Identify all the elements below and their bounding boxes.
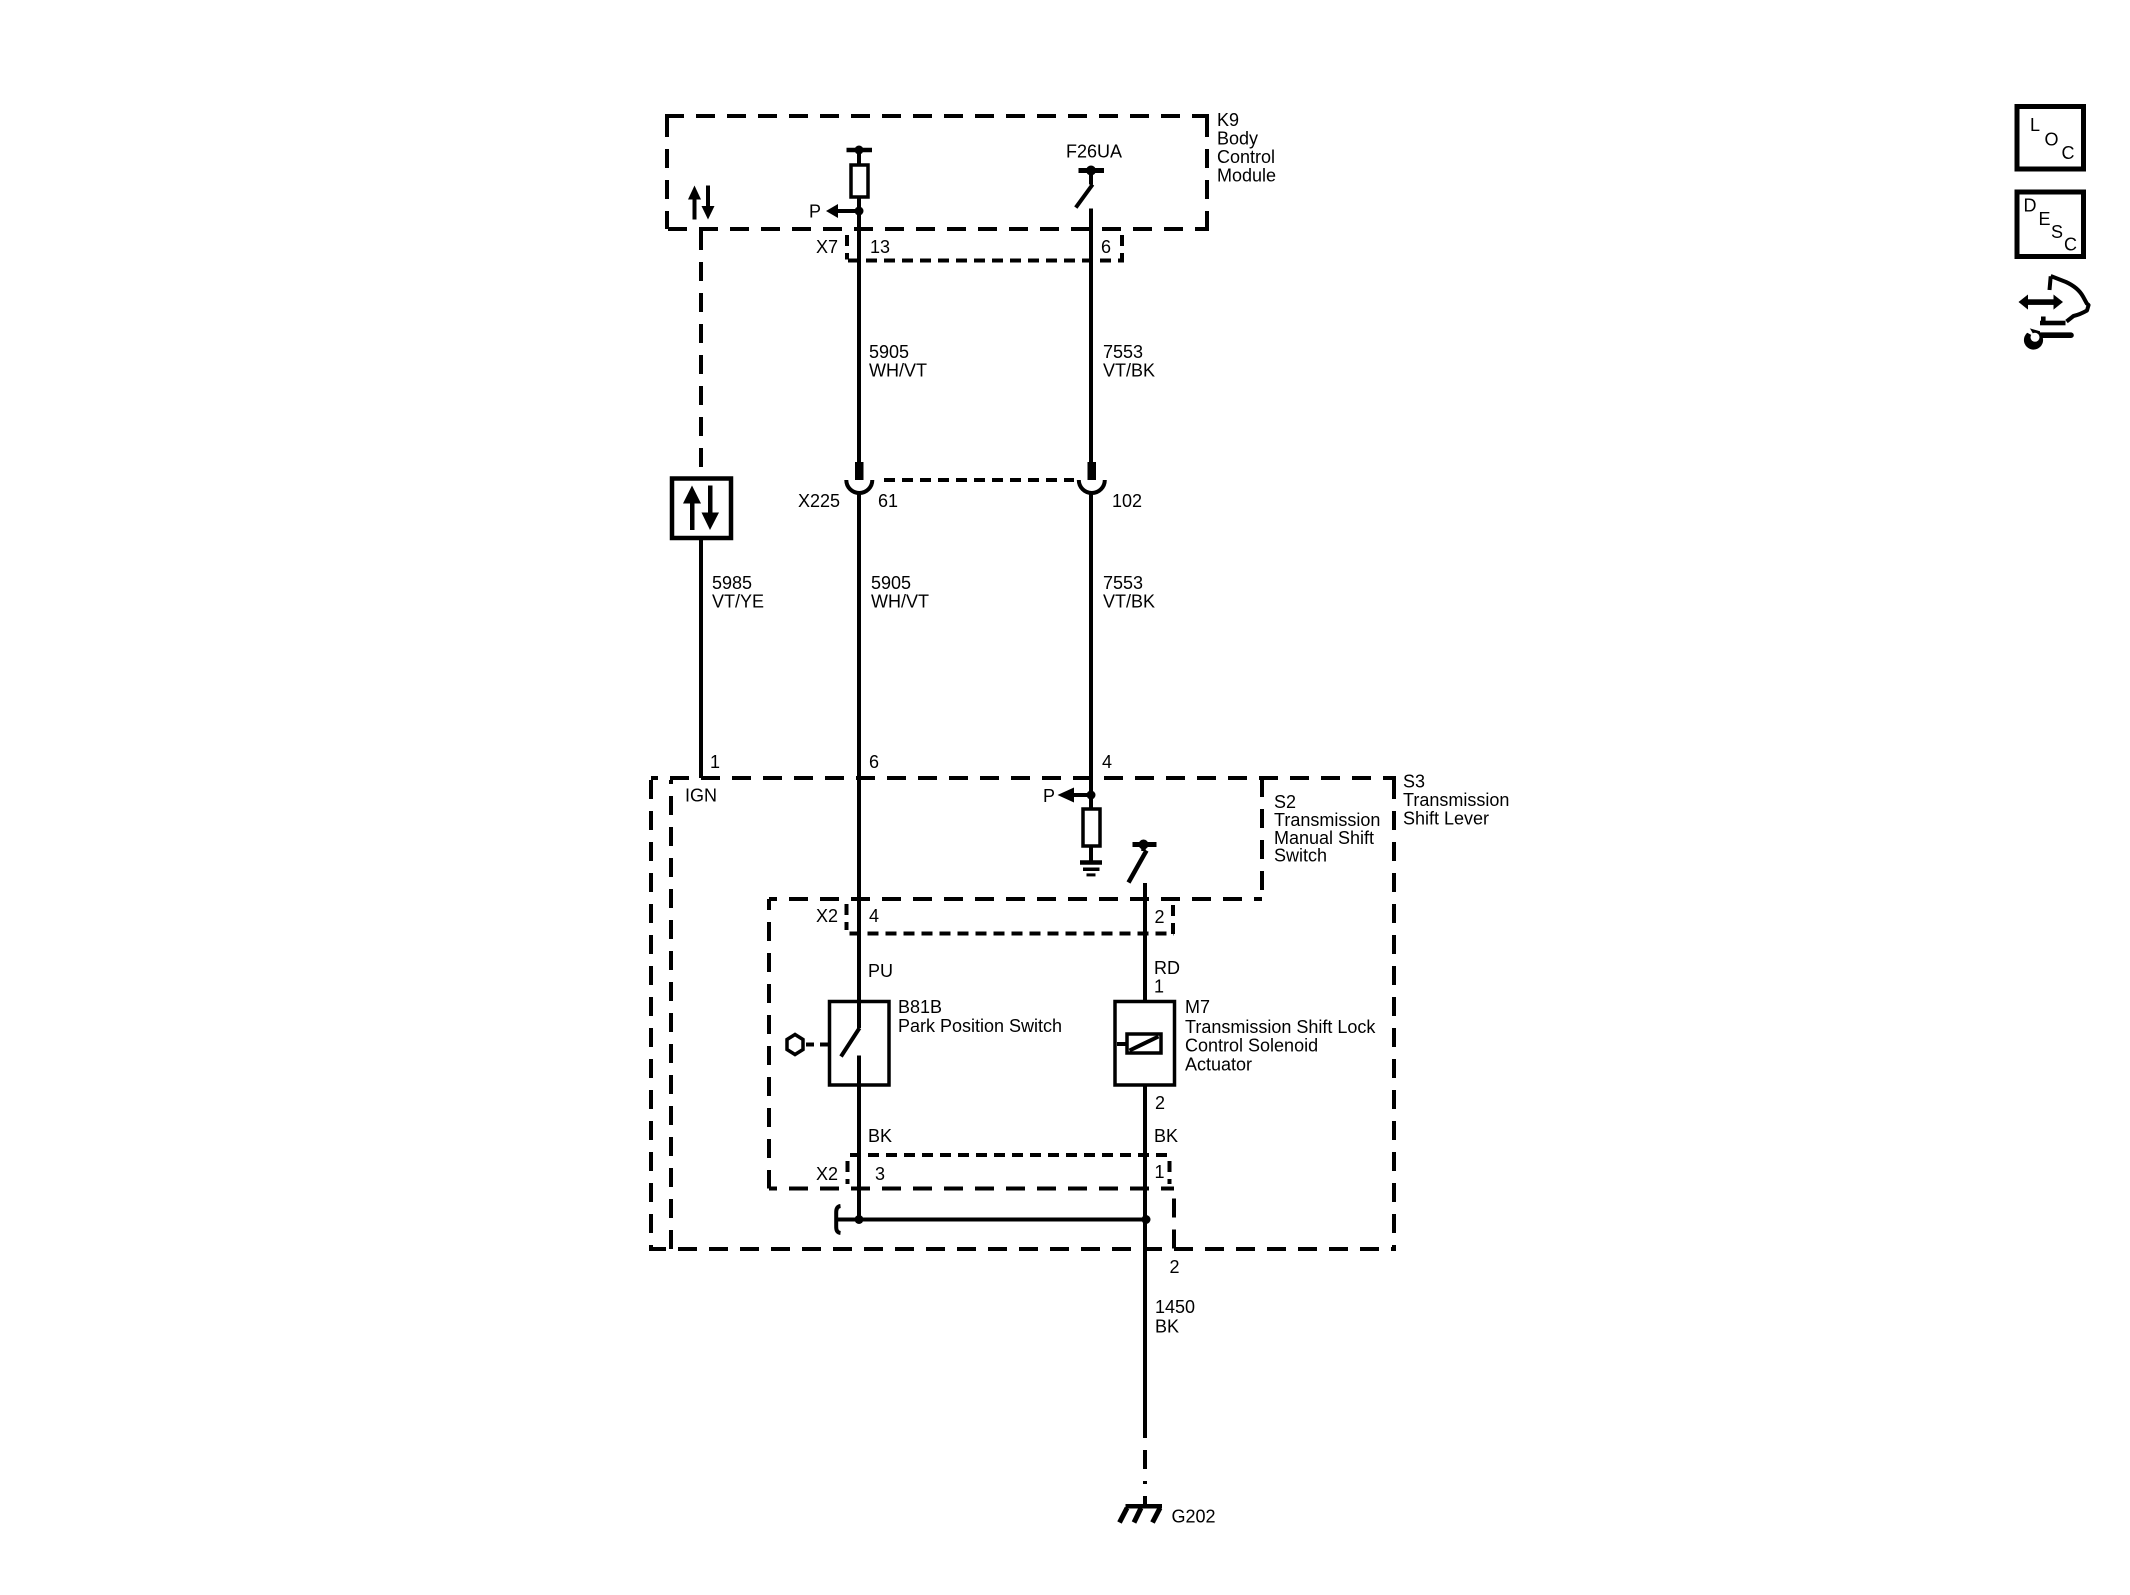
svg-text:K9: K9 xyxy=(1217,110,1239,130)
svg-text:S: S xyxy=(2051,222,2063,242)
svg-text:2: 2 xyxy=(1155,1093,1165,1113)
svg-text:X2: X2 xyxy=(816,906,838,926)
svg-text:5905: 5905 xyxy=(871,573,911,593)
svg-text:2: 2 xyxy=(1155,907,1165,927)
svg-text:Shift Lever: Shift Lever xyxy=(1403,809,1489,829)
svg-text:IGN: IGN xyxy=(685,786,717,806)
svg-text:M7: M7 xyxy=(1185,997,1210,1017)
svg-text:E: E xyxy=(2039,209,2051,229)
svg-text:BK: BK xyxy=(868,1126,892,1146)
svg-text:RD: RD xyxy=(1154,958,1180,978)
svg-text:61: 61 xyxy=(878,491,898,511)
svg-text:Switch: Switch xyxy=(1274,846,1327,866)
svg-text:Module: Module xyxy=(1217,166,1276,186)
svg-text:1: 1 xyxy=(1155,1162,1165,1182)
svg-text:Body: Body xyxy=(1217,129,1258,149)
svg-text:2: 2 xyxy=(1170,1257,1180,1277)
svg-text:Transmission: Transmission xyxy=(1274,810,1380,830)
svg-text:C: C xyxy=(2064,235,2077,255)
svg-text:5985: 5985 xyxy=(712,573,752,593)
svg-text:F26UA: F26UA xyxy=(1066,142,1122,162)
svg-text:X7: X7 xyxy=(816,237,838,257)
svg-text:6: 6 xyxy=(1101,237,1111,257)
svg-text:WH/VT: WH/VT xyxy=(871,592,929,612)
svg-text:13: 13 xyxy=(870,237,890,257)
svg-text:4: 4 xyxy=(1102,752,1112,772)
svg-text:PU: PU xyxy=(868,961,893,981)
svg-text:X225: X225 xyxy=(798,491,840,511)
svg-text:B81B: B81B xyxy=(898,997,942,1017)
svg-text:VT/YE: VT/YE xyxy=(712,592,764,612)
svg-text:D: D xyxy=(2024,196,2037,216)
svg-text:Control Solenoid: Control Solenoid xyxy=(1185,1036,1318,1056)
svg-text:S2: S2 xyxy=(1274,792,1296,812)
svg-text:Actuator: Actuator xyxy=(1185,1055,1252,1075)
svg-text:G202: G202 xyxy=(1172,1507,1216,1527)
svg-text:O: O xyxy=(2045,130,2059,150)
svg-text:1450: 1450 xyxy=(1155,1297,1195,1317)
svg-text:VT/BK: VT/BK xyxy=(1103,592,1155,612)
svg-text:X2: X2 xyxy=(816,1164,838,1184)
svg-text:P: P xyxy=(1043,786,1055,806)
svg-text:1: 1 xyxy=(1154,977,1164,997)
svg-text:Park Position Switch: Park Position Switch xyxy=(898,1016,1062,1036)
svg-text:5905: 5905 xyxy=(869,342,909,362)
svg-text:BK: BK xyxy=(1154,1126,1178,1146)
svg-text:C: C xyxy=(2062,143,2075,163)
svg-text:BK: BK xyxy=(1155,1317,1179,1337)
svg-text:P: P xyxy=(809,202,821,222)
svg-text:6: 6 xyxy=(869,752,879,772)
svg-text:4: 4 xyxy=(869,906,879,926)
svg-text:WH/VT: WH/VT xyxy=(869,361,927,381)
svg-text:7553: 7553 xyxy=(1103,573,1143,593)
svg-text:Transmission Shift Lock: Transmission Shift Lock xyxy=(1185,1017,1376,1037)
svg-text:VT/BK: VT/BK xyxy=(1103,361,1155,381)
svg-text:3: 3 xyxy=(875,1164,885,1184)
svg-text:L: L xyxy=(2030,115,2040,135)
svg-text:7553: 7553 xyxy=(1103,342,1143,362)
svg-text:102: 102 xyxy=(1112,491,1142,511)
svg-text:Control: Control xyxy=(1217,147,1275,167)
svg-text:Transmission: Transmission xyxy=(1403,790,1509,810)
svg-text:1: 1 xyxy=(710,752,720,772)
svg-text:S3: S3 xyxy=(1403,772,1425,792)
